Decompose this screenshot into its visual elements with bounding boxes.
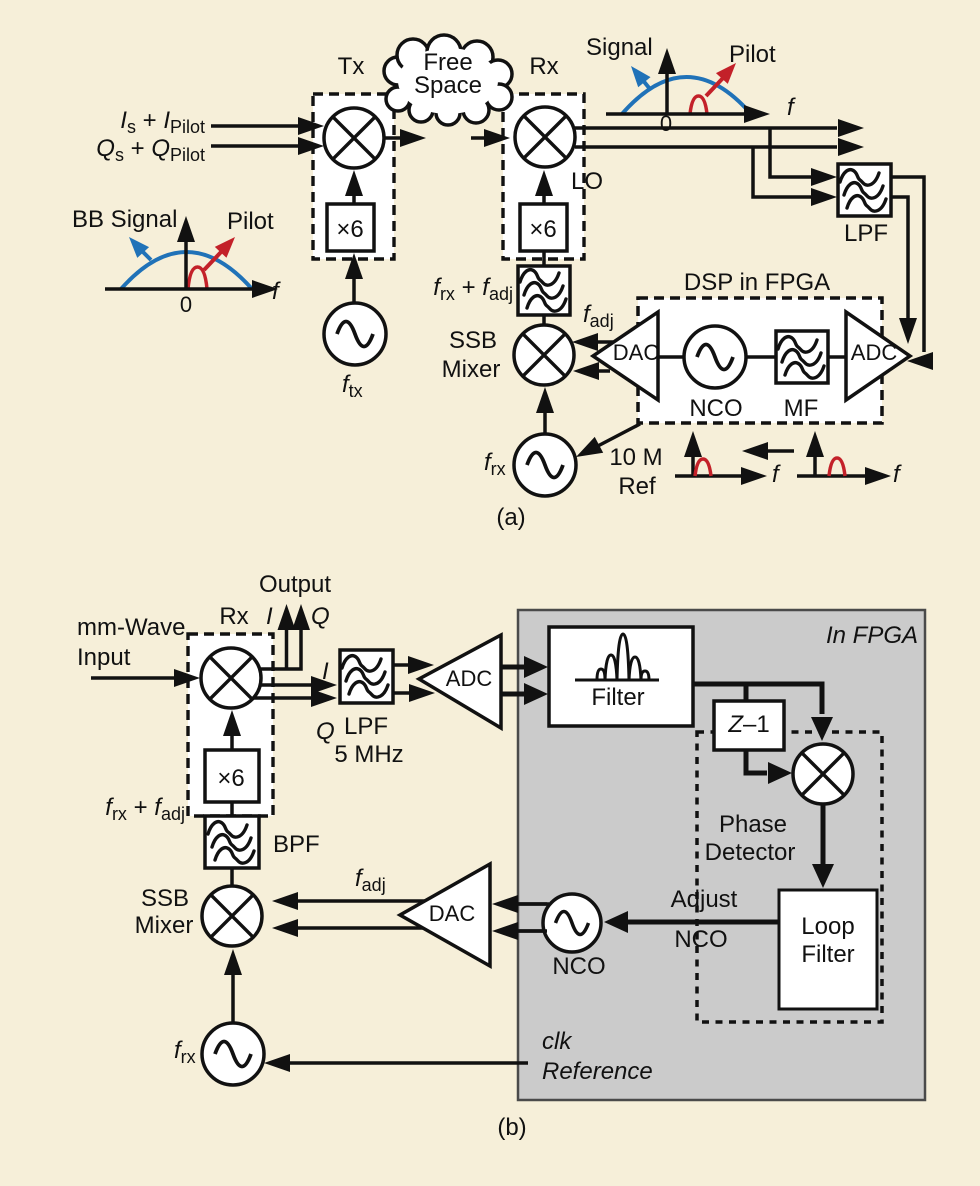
wire into Rx xyxy=(471,136,484,140)
red arrow xyxy=(706,78,723,96)
wire LPF out upper xyxy=(891,177,924,352)
spectrum left: BB Signal / Pilot xyxy=(72,206,281,317)
wire LPF-ADC upper xyxy=(393,663,409,667)
svg-text:ADC: ADC xyxy=(851,340,898,365)
svg-text:Input: Input xyxy=(77,644,131,671)
dashed box Tx xyxy=(313,94,394,259)
svg-text:Loop: Loop xyxy=(801,913,854,940)
block Z-1 xyxy=(714,701,784,750)
mixer Tx xyxy=(324,108,384,168)
red arrow BB xyxy=(204,251,222,270)
svg-text:(b): (b) xyxy=(497,1114,526,1141)
dashed box DSP xyxy=(638,298,882,423)
wire filter to SSB mixer xyxy=(542,315,546,326)
svg-text:Filter: Filter xyxy=(591,684,644,711)
svg-text:Output: Output xyxy=(259,571,331,598)
svg-text:DAC: DAC xyxy=(613,340,660,365)
wire 10M ref to osc xyxy=(594,424,640,448)
oscillator frx (a) xyxy=(514,434,576,496)
wire NCO out upper xyxy=(516,902,549,906)
wire osc frx to SSB mixer (a) xyxy=(543,411,547,434)
svg-text:×6: ×6 xyxy=(336,216,363,243)
svg-text:(a): (a) xyxy=(496,504,525,531)
wire NCO to DAC upper xyxy=(517,902,547,906)
axes xyxy=(606,112,745,116)
red pulse xyxy=(690,96,707,114)
wire output Q xyxy=(261,630,301,669)
wire Q to LPF xyxy=(253,696,311,700)
ADC triangle (b) xyxy=(419,635,501,728)
svg-text:10 M: 10 M xyxy=(609,444,662,471)
svg-text:BB Signal: BB Signal xyxy=(72,206,177,233)
wire mixer to loop filter (thick) xyxy=(821,804,826,864)
svg-text:NCO: NCO xyxy=(689,395,742,422)
wire DAC to SSB upper xyxy=(596,340,613,344)
svg-text:Q: Q xyxy=(311,603,330,630)
svg-text:Phase: Phase xyxy=(719,811,787,838)
DAC triangle (a) xyxy=(593,312,658,400)
svg-text:LPF: LPF xyxy=(844,220,888,247)
spectrum small right (a) xyxy=(797,431,902,488)
svg-text:0: 0 xyxy=(180,292,192,317)
block Loop Filter xyxy=(779,890,877,1009)
wire LPF-ADC lower xyxy=(393,691,410,695)
svg-text:Ref: Ref xyxy=(618,473,656,500)
svg-text:ADC: ADC xyxy=(446,666,493,691)
svg-text:Space: Space xyxy=(414,72,482,99)
ADC triangle (a) xyxy=(846,312,910,400)
wire I input xyxy=(211,124,299,128)
wire x6 to Tx mixer xyxy=(352,194,356,204)
wire LPF out lower xyxy=(891,197,908,320)
wire MF-ADC xyxy=(828,355,847,359)
multiplier x6 (Rx) xyxy=(520,204,567,251)
wire x6 to Rx mixer (b) xyxy=(230,734,234,750)
svg-text:Z–1: Z–1 xyxy=(727,711,769,738)
arrow left between spectra xyxy=(768,449,794,453)
wire ADC to Filter upper (thick) xyxy=(501,665,528,670)
wire clk reference xyxy=(290,1061,528,1065)
wire BPF-SSB xyxy=(230,868,234,887)
blue arc xyxy=(622,77,751,114)
wire DAC to SSB lower (b) xyxy=(297,926,423,930)
svg-text:0: 0 xyxy=(660,111,672,136)
svg-text:LO: LO xyxy=(571,168,603,195)
wire Z-1 to mixer xyxy=(746,750,767,773)
wire NCO out lower xyxy=(516,929,547,933)
svg-text:5 MHz: 5 MHz xyxy=(334,741,403,768)
wire loop filter to NCO (thick) xyxy=(628,920,779,925)
svg-text:I: I xyxy=(266,603,273,630)
oscillator NCO (a) xyxy=(684,326,746,388)
blue arrow xyxy=(641,78,650,89)
dashed box Rx xyxy=(503,94,584,259)
svg-text:Detector: Detector xyxy=(705,839,796,866)
wire DAC-NCO xyxy=(658,355,684,359)
svg-text:DSP in FPGA: DSP in FPGA xyxy=(684,269,830,296)
filter LPF box (b) xyxy=(340,650,393,703)
oscillator NCO (b) xyxy=(543,894,601,952)
wire ADC to Filter lower (thick) xyxy=(501,692,528,697)
wire Q input xyxy=(211,144,299,148)
svg-text:Tx: Tx xyxy=(338,53,365,80)
svg-text:LPF: LPF xyxy=(344,713,388,740)
svg-text:Filter: Filter xyxy=(801,941,854,968)
DAC triangle (b) xyxy=(400,864,490,966)
svg-text:clk: clk xyxy=(542,1028,573,1055)
filter BPF box xyxy=(205,816,259,868)
svg-text:SSB: SSB xyxy=(449,327,497,354)
svg-text:Q: Q xyxy=(316,718,335,745)
wire Rx out upper xyxy=(575,128,837,177)
wire Rx out lower xyxy=(575,147,837,197)
wire DAC to SSB lower xyxy=(597,369,610,373)
blue arc BB xyxy=(121,252,252,289)
blue arrow BB xyxy=(141,250,151,260)
svg-text:Mixer: Mixer xyxy=(442,356,501,383)
red pulse BB xyxy=(188,267,207,289)
svg-text:mm-Wave: mm-Wave xyxy=(77,614,185,641)
svg-text:Adjust: Adjust xyxy=(671,886,738,913)
svg-text:SSB: SSB xyxy=(141,885,189,912)
mixer phase detector xyxy=(793,744,853,804)
wire input (b) xyxy=(91,676,175,680)
cloud Free Space xyxy=(384,35,512,125)
svg-text:Reference: Reference xyxy=(542,1058,653,1085)
multiplier x6 (Tx) xyxy=(327,204,374,251)
svg-text:Signal: Signal xyxy=(586,34,653,61)
filter MF box xyxy=(776,331,828,383)
wire NCO-MF xyxy=(746,355,776,359)
svg-text:NCO: NCO xyxy=(674,926,727,953)
svg-text:×6: ×6 xyxy=(217,765,244,792)
wire Tx out xyxy=(384,136,401,140)
wire Rxbox to filter xyxy=(542,251,546,266)
wire DAC to SSB upper (b) xyxy=(298,899,425,903)
dashed box Phase Detector xyxy=(697,732,882,1022)
wire osc frx to SSB (b) xyxy=(231,973,235,1023)
multiplier x6 (b) xyxy=(205,750,259,802)
svg-text:In FPGA: In FPGA xyxy=(826,622,918,649)
svg-text:Rx: Rx xyxy=(219,603,248,630)
svg-text:I: I xyxy=(322,658,329,685)
LPF filter box (a) xyxy=(838,164,891,216)
dashed box Rx (b) xyxy=(188,634,273,816)
Filter box (b) xyxy=(549,627,693,726)
mixer Rx xyxy=(515,107,575,167)
wire x6 to Rx mixer xyxy=(542,194,546,204)
svg-text:MF: MF xyxy=(784,395,819,422)
wire x6-BPF xyxy=(230,802,234,816)
wire output I xyxy=(285,630,289,669)
spectrum top: Signal / Pilot xyxy=(586,34,796,136)
mixer Rx (b) xyxy=(201,648,261,708)
svg-text:BPF: BPF xyxy=(273,831,320,858)
mixer SSB (a) xyxy=(514,325,574,385)
oscillator frx (b) xyxy=(202,1023,264,1085)
mixer SSB (b) xyxy=(202,886,262,946)
axes BB xyxy=(105,287,252,291)
svg-text:DAC: DAC xyxy=(429,901,476,926)
wire branch to Z-1 xyxy=(744,684,749,701)
svg-text:Pilot: Pilot xyxy=(227,208,274,235)
sinc icon xyxy=(575,634,659,680)
svg-text:×6: ×6 xyxy=(529,216,556,243)
svg-text:Mixer: Mixer xyxy=(135,912,194,939)
wire Filter out (thick) xyxy=(693,684,822,714)
svg-text:Pilot: Pilot xyxy=(729,41,776,68)
wire I to LPF xyxy=(259,683,311,687)
spectrum small left (a) xyxy=(675,431,781,488)
svg-text:Rx: Rx xyxy=(529,53,558,80)
wire NCO to DAC lower xyxy=(517,929,546,933)
svg-text:NCO: NCO xyxy=(552,953,605,980)
oscillator ftx xyxy=(324,303,386,365)
gray box In FPGA xyxy=(518,610,925,1100)
wire ftx to x6 xyxy=(352,277,356,302)
filter frx+fadj box xyxy=(518,266,570,315)
